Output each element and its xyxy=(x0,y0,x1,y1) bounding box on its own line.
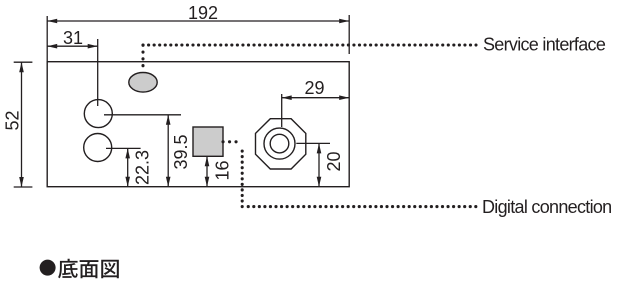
svg-text:52: 52 xyxy=(3,110,23,130)
caption bullet xyxy=(40,260,56,276)
dimension 22.3: leader from lower circle xyxy=(106,147,141,149)
svg-text:22.3: 22.3 xyxy=(133,150,153,185)
mounting hole circle (upper) xyxy=(84,100,112,128)
device body outline (bottom view) xyxy=(47,62,349,187)
leader dotted: horizontal to Digital connection xyxy=(248,205,476,208)
dimension 20: leader from octagon center xyxy=(296,142,330,144)
dimension 52: bottom tick xyxy=(14,186,33,188)
connector outer circle xyxy=(264,128,295,159)
svg-text:192: 192 xyxy=(188,3,218,23)
dimension 52: dimension line xyxy=(21,62,23,187)
dimension 52: top tick xyxy=(14,61,33,63)
connector inner circle xyxy=(270,134,289,153)
antenna connector octagon xyxy=(256,119,306,169)
leader dotted: ellipse up xyxy=(141,45,144,72)
dimension 31: dimension line xyxy=(47,45,97,47)
service interface port (ellipse) xyxy=(129,73,157,93)
dimension 29: dimension line xyxy=(282,97,350,99)
dimension 192: dimension line xyxy=(47,20,349,22)
svg-text:Digital connection: Digital connection xyxy=(482,197,611,217)
svg-text:16: 16 xyxy=(213,160,233,180)
leader dotted: from square right xyxy=(223,140,242,143)
leader dotted: down xyxy=(241,147,244,207)
svg-text:20: 20 xyxy=(324,151,344,171)
svg-text:31: 31 xyxy=(63,28,83,48)
mounting hole circle (lower) xyxy=(84,134,112,162)
svg-text:29: 29 xyxy=(304,78,324,98)
svg-text:Service interface: Service interface xyxy=(483,34,606,54)
dimension 192: extension line right xyxy=(348,15,350,54)
dimension 22.3: dimension line xyxy=(127,148,129,186)
dimension 39.5: leader from upper circle xyxy=(104,114,181,116)
dimension 192: extension line left xyxy=(46,16,48,62)
dimension 31: extension line right xyxy=(97,39,99,106)
leader dotted: horizontal to Service interface xyxy=(143,43,476,46)
dimension 20: dimension line xyxy=(318,143,320,186)
caption kanji 底面図 (bottom view) xyxy=(58,259,78,279)
dimension 29: extension line from octagon center xyxy=(281,94,283,127)
digital connection port (square) xyxy=(193,127,223,156)
svg-text:39.5: 39.5 xyxy=(171,134,191,169)
dimension 39.5: dimension line xyxy=(167,115,169,187)
dimension 16: dimension line xyxy=(206,156,208,186)
